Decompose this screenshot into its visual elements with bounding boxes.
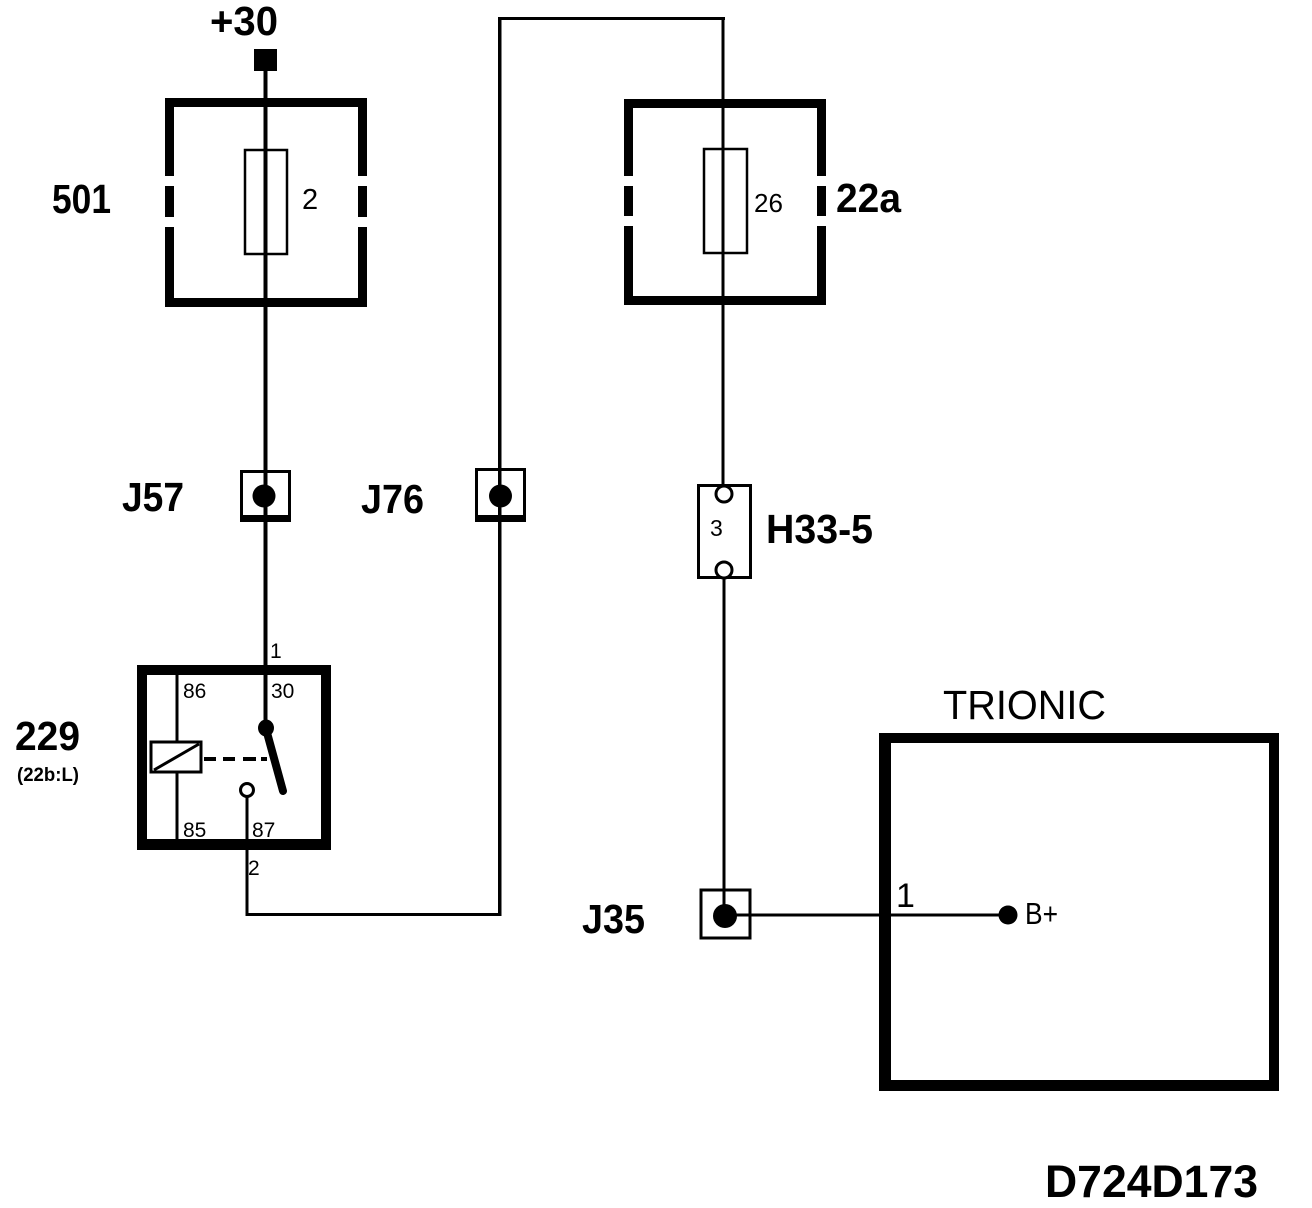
connector J35 contact dot <box>713 904 737 928</box>
svg-text:+30: +30 <box>210 0 278 44</box>
lamp H33-5 bottom terminal circle <box>716 562 732 578</box>
relay coil diagonal <box>154 744 199 770</box>
fuse 26 body <box>704 149 747 253</box>
connector J57 contact dot <box>253 485 276 508</box>
svg-text:85: 85 <box>183 819 206 842</box>
node +30 terminal square <box>254 49 277 71</box>
wire fuse 22a branch down to H33-5 <box>722 17 725 491</box>
lamp H33-5 body <box>699 486 751 578</box>
svg-text:501: 501 <box>52 176 111 222</box>
relay dashed actuator line <box>204 757 267 761</box>
connector J76 contact dot <box>489 485 512 508</box>
svg-text:2: 2 <box>302 184 318 216</box>
wire J76 vertical branch <box>498 17 502 916</box>
svg-text:2: 2 <box>248 857 260 880</box>
ECU TRIONIC box border <box>879 733 1279 1091</box>
svg-text:J76: J76 <box>361 476 424 522</box>
svg-text:86: 86 <box>183 680 206 703</box>
wire top horizontal J76 to fuse 22a <box>498 17 725 20</box>
fuse box 501 border <box>165 98 367 307</box>
relay 229 box border <box>137 665 331 850</box>
svg-text:(22b:L): (22b:L) <box>17 765 79 786</box>
fuse 2 body <box>245 150 287 254</box>
wire relay pin 87 down <box>246 796 249 916</box>
relay coil wire pin 86 to 85 <box>176 675 179 839</box>
svg-text:J57: J57 <box>122 474 184 520</box>
relay coil body <box>151 742 201 772</box>
wire relay pin 2 horizontal to J76 branch <box>246 913 502 916</box>
svg-text:J35: J35 <box>582 896 645 942</box>
connector J57 box <box>240 472 291 523</box>
relay switch arm <box>266 729 283 791</box>
svg-text:22a: 22a <box>836 175 902 221</box>
svg-text:30: 30 <box>271 680 294 703</box>
svg-text:H33-5: H33-5 <box>766 506 873 552</box>
wire +30 down through fuse 501 and J57 to relay pin 30 <box>264 70 268 730</box>
svg-text:87: 87 <box>252 819 275 842</box>
svg-text:D724D173: D724D173 <box>1045 1156 1258 1207</box>
svg-text:229: 229 <box>15 713 80 759</box>
svg-text:26: 26 <box>754 188 783 218</box>
relay pin 87 contact circle <box>241 784 254 797</box>
fuse box 22a border <box>624 99 826 305</box>
wire H33-5 down to J35 <box>723 578 726 916</box>
connector J35 box <box>701 890 750 938</box>
relay switch pivot dot <box>258 720 274 737</box>
svg-text:1: 1 <box>270 640 282 663</box>
svg-text:3: 3 <box>710 515 723 541</box>
svg-text:B+: B+ <box>1025 896 1058 931</box>
connector J76 box <box>475 470 526 523</box>
svg-text:1: 1 <box>896 877 915 915</box>
svg-text:TRIONIC: TRIONIC <box>943 682 1106 728</box>
wire J35 to B+ node <box>725 914 1003 917</box>
lamp H33-5 top terminal circle <box>716 486 732 502</box>
node B+ dot <box>999 906 1018 925</box>
